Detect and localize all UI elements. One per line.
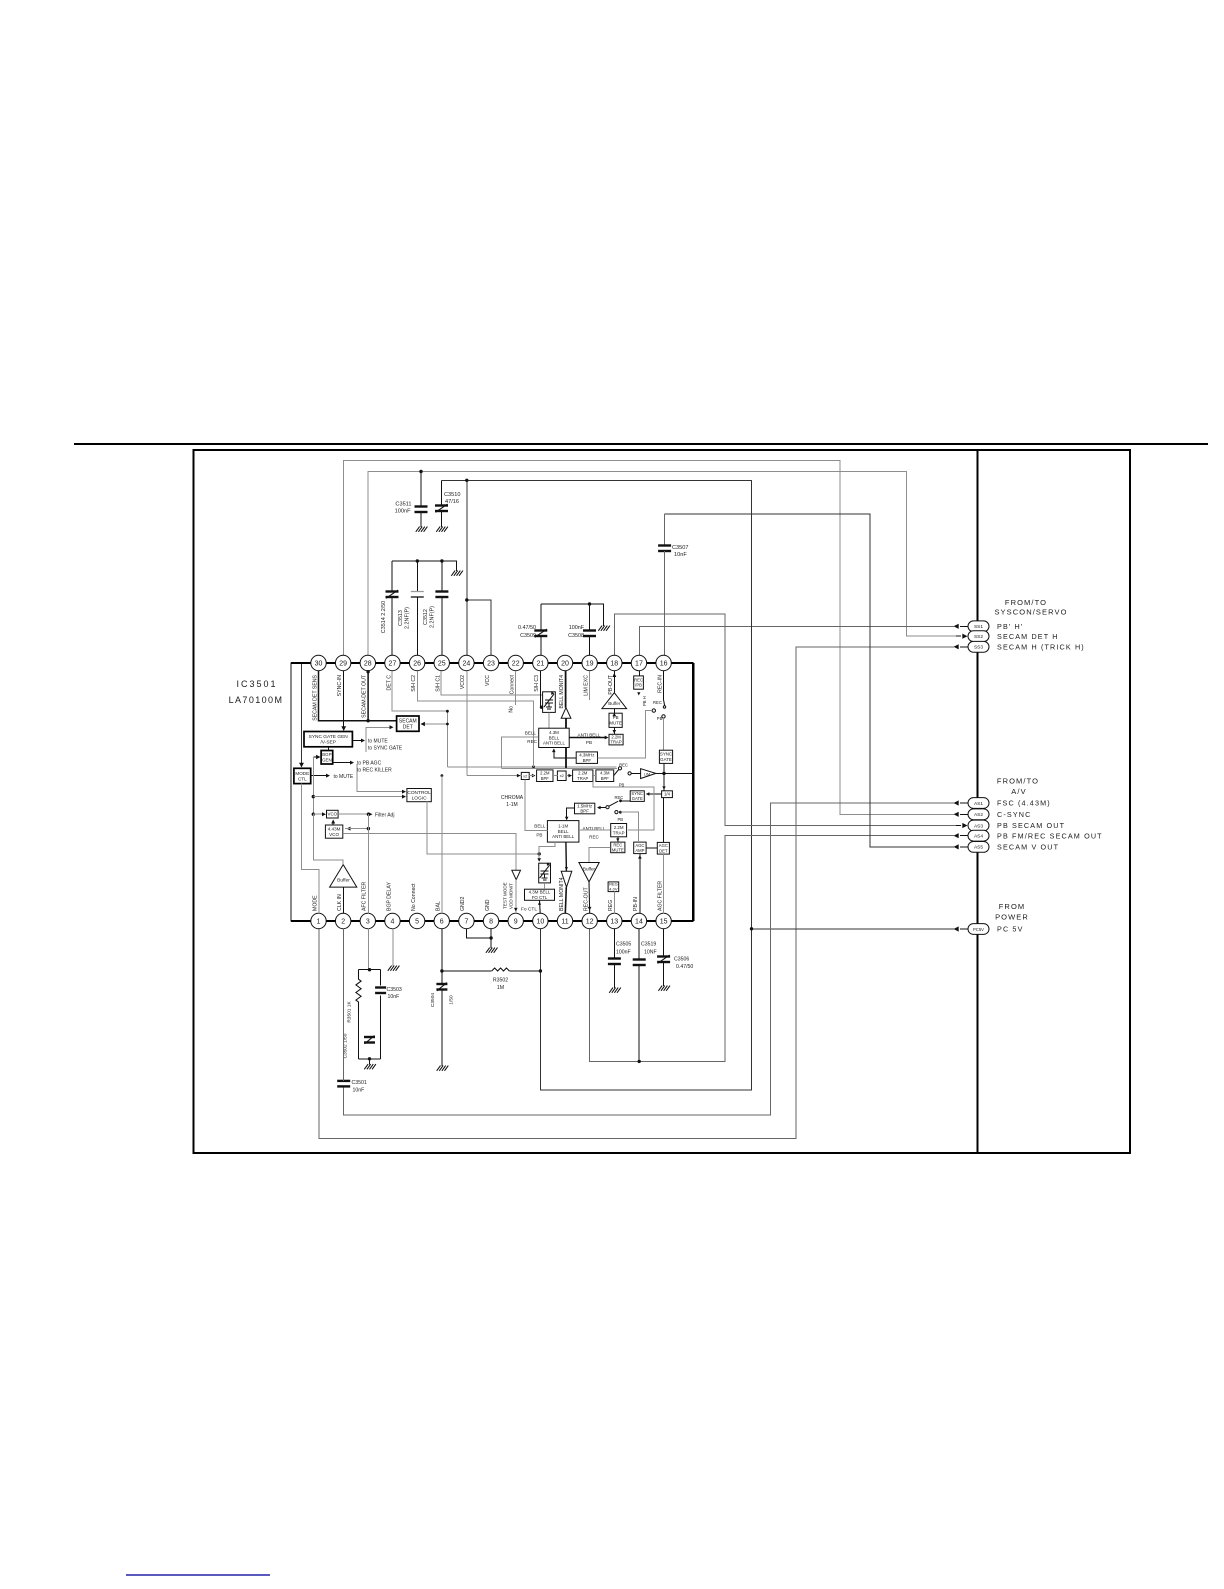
wire row rail xyxy=(467,774,536,778)
svg-text:BELL: BELL xyxy=(558,829,569,834)
pin 20 xyxy=(557,655,572,708)
resistor R3502 1M xyxy=(442,968,541,991)
ground C3508 rail xyxy=(598,626,610,631)
svg-text:CHROMA: CHROMA xyxy=(501,795,524,801)
buffer B3 (REC-OUT) xyxy=(579,863,599,882)
junction network top xyxy=(368,968,371,971)
svg-text:1M: 1M xyxy=(497,985,504,991)
wire 4.43M VCO adj xyxy=(345,827,368,831)
wire mode bus branch xyxy=(312,757,314,815)
svg-text:Fo CTL: Fo CTL xyxy=(521,907,537,913)
block AGC AMP xyxy=(634,842,646,854)
svg-text:LA70100M: LA70100M xyxy=(229,695,284,705)
wire rec rail lower xyxy=(502,767,617,769)
wire pin3 network xyxy=(367,928,369,969)
block REC MUTE xyxy=(611,842,625,853)
wire trimmer to bell filter xyxy=(548,712,550,728)
label ANTI BELL PB xyxy=(578,733,601,746)
svg-text:1/50: 1/50 xyxy=(449,995,455,1005)
svg-text:C3503: C3503 xyxy=(387,987,402,993)
svg-text:Buffer: Buffer xyxy=(337,878,350,884)
block x2 b xyxy=(557,771,566,781)
pin 26 xyxy=(409,655,424,691)
block 4.43M VCO xyxy=(325,825,342,838)
buffer B1 (CLK) xyxy=(330,865,357,888)
svg-text:to MUTE: to MUTE xyxy=(368,739,388,745)
svg-text:30: 30 xyxy=(315,661,323,668)
wire lim out xyxy=(656,772,693,774)
pin 1 xyxy=(311,895,326,929)
connector AS1 (FSC (4.43M)) xyxy=(954,798,1051,809)
svg-text:IC3501: IC3501 xyxy=(236,679,277,689)
buffer B2 (PB-OUT) xyxy=(602,693,627,709)
svg-text:MODE: MODE xyxy=(312,895,318,911)
switch sync gate rec/pb xyxy=(606,795,630,822)
svg-text:47/16: 47/16 xyxy=(445,499,459,505)
header FROM POWER xyxy=(995,902,1029,922)
svg-text:16: 16 xyxy=(660,661,668,668)
svg-text:FROM/TO: FROM/TO xyxy=(997,777,1039,786)
svg-text:SS2: SS2 xyxy=(974,634,983,640)
pin 12 xyxy=(582,887,597,929)
svg-text:1-1M: 1-1M xyxy=(558,824,568,829)
svg-text:S/H C2: S/H C2 xyxy=(411,675,417,692)
connector AS2 (C-SYNC) xyxy=(954,809,1032,820)
header FROM/TO A/V xyxy=(997,777,1039,797)
arrow into MODE CTL xyxy=(299,763,304,768)
svg-text:SYSCON/SERVO: SYSCON/SERVO xyxy=(994,608,1067,617)
svg-text:SECAM-DET OUT: SECAM-DET OUT xyxy=(362,674,368,718)
svg-text:REC: REC xyxy=(527,739,537,744)
svg-text:AS5: AS5 xyxy=(974,845,983,851)
svg-text:ANTI BELL: ANTI BELL xyxy=(543,741,566,746)
wire S/H cap rail xyxy=(392,561,457,571)
svg-text:13: 13 xyxy=(610,919,618,926)
wire bgp to control logic xyxy=(357,764,406,794)
wire bpf left xyxy=(552,749,576,758)
junction R3502 left xyxy=(440,969,443,972)
block 1.5MHz BPF xyxy=(575,803,595,814)
block 4.3M BELL FO CTL xyxy=(525,889,555,900)
svg-text:14: 14 xyxy=(635,919,643,926)
wire pins7/8 ground xyxy=(467,928,492,948)
svg-text:17: 17 xyxy=(635,661,643,668)
svg-text:SECAM H (TRICK H): SECAM H (TRICK H) xyxy=(997,642,1085,651)
wire 1/4 down to AGC DET xyxy=(663,798,665,843)
svg-text:PB FM/REC SECAM OUT: PB FM/REC SECAM OUT xyxy=(997,831,1103,840)
svg-text:Buffer: Buffer xyxy=(583,867,596,872)
svg-text:24: 24 xyxy=(463,661,471,668)
svg-text:20: 20 xyxy=(561,661,569,668)
svg-text:10nF: 10nF xyxy=(674,552,687,558)
pin 9 xyxy=(508,913,523,928)
svg-text:GATE: GATE xyxy=(632,796,643,801)
svg-text:VCO: VCO xyxy=(328,812,338,817)
wire pin3 AFC xyxy=(367,814,369,913)
svg-text:LOGIC: LOGIC xyxy=(412,796,427,802)
svg-text:PB' H': PB' H' xyxy=(997,622,1023,631)
amp LIM xyxy=(641,769,656,779)
svg-text:100nF: 100nF xyxy=(395,509,411,515)
connector PC5V (PC 5V) xyxy=(954,924,1024,935)
wire buffer pbmute xyxy=(613,709,617,717)
wire pin29 into SYNC GATE GEN xyxy=(343,671,345,730)
wire pin2 to C3501 xyxy=(343,928,345,1081)
ground C3506 xyxy=(658,986,670,991)
block VCO xyxy=(327,810,339,818)
block 4.3MHz BPF xyxy=(576,752,597,764)
svg-text:DET: DET xyxy=(659,848,668,853)
pin 14 xyxy=(631,897,646,929)
svg-text:10nF: 10nF xyxy=(388,994,400,1000)
svg-text:15: 15 xyxy=(660,919,668,926)
wire pin2 CLK to AS1 FSC xyxy=(344,803,954,1115)
pin 30 xyxy=(311,655,326,720)
svg-text:BAL: BAL xyxy=(436,901,442,911)
svg-text:C3512: C3512 xyxy=(423,609,429,625)
label PB H xyxy=(637,692,647,706)
svg-text:PB-IN: PB-IN xyxy=(633,897,639,911)
wire pin28 down xyxy=(367,671,369,721)
svg-text:4.3M BELL: 4.3M BELL xyxy=(529,890,551,895)
svg-text:PB-OUT: PB-OUT xyxy=(608,674,614,694)
wire buffer top jog xyxy=(313,814,343,864)
wire det rail xyxy=(447,766,616,768)
svg-text:LIM EXC: LIM EXC xyxy=(583,675,589,696)
svg-text:No Connect: No Connect xyxy=(411,883,417,911)
wire MODE CTL feed xyxy=(301,663,303,766)
wire pin30 to SECAM DET xyxy=(319,671,397,721)
capacitor C3501 10nF xyxy=(337,1080,367,1094)
capacitor C3506 0.47/50 xyxy=(657,928,693,986)
arrow into BGP GEN left xyxy=(313,756,319,758)
svg-text:R3502: R3502 xyxy=(493,978,508,984)
svg-text:TRAP: TRAP xyxy=(577,776,588,781)
wire bpf to rec contact xyxy=(598,711,653,758)
wire 4.43M VCO to test monitor xyxy=(343,834,516,871)
block 1/4 divider xyxy=(662,791,673,798)
svg-text:18: 18 xyxy=(610,661,618,668)
wire buffer3 pin12 xyxy=(588,882,592,913)
svg-text:C3514 2.2/50: C3514 2.2/50 xyxy=(381,601,387,633)
svg-text:VCC: VCC xyxy=(485,675,491,686)
svg-text:VCO2: VCO2 xyxy=(460,675,466,689)
svg-text:22: 22 xyxy=(512,661,520,668)
svg-text:SYNC GATE GEN: SYNC GATE GEN xyxy=(309,734,349,740)
block x2 a xyxy=(521,772,529,779)
wire pin24 VCO2 up to VCC rail xyxy=(466,480,468,655)
wire pin21 to trimmer xyxy=(541,671,543,707)
capacitor C3512 2.2NF(P) xyxy=(423,561,448,656)
svg-text:SECAM DET SENS: SECAM DET SENS xyxy=(312,674,318,720)
wire pin18 buffer xyxy=(612,671,616,693)
svg-text:9: 9 xyxy=(514,919,518,926)
svg-text:11: 11 xyxy=(561,919,568,926)
svg-text:BELL MONIT4: BELL MONIT4 xyxy=(559,877,565,911)
svg-text:BELL: BELL xyxy=(549,735,560,740)
pin 3 xyxy=(360,881,375,928)
label CHROMA 1-1M xyxy=(501,795,524,808)
block 2.2M TRAP (pb) xyxy=(609,734,623,745)
junction pin28/pin30 wire xyxy=(366,719,369,722)
wire trimmer2 foctl xyxy=(544,883,546,889)
svg-text:MUTE: MUTE xyxy=(612,847,624,852)
svg-text:C3508: C3508 xyxy=(568,633,584,639)
wire C3509/C3508 ground rail xyxy=(541,604,604,626)
pin 25 xyxy=(434,655,449,691)
connector AS4 (PB FM/REC SECAM OUT) xyxy=(954,830,1103,841)
svg-text:C3510: C3510 xyxy=(444,492,460,498)
amp BELL MONIT4 (pin11) xyxy=(561,871,572,887)
svg-text:to PB AGC: to PB AGC xyxy=(357,761,382,767)
junction C3511 tap xyxy=(419,470,422,473)
svg-text:6: 6 xyxy=(440,919,444,926)
capacitor C3510 47/16 xyxy=(435,480,460,527)
svg-text:1-1M: 1-1M xyxy=(506,802,517,808)
svg-text:TRAP: TRAP xyxy=(610,740,621,745)
junction trimmer xyxy=(540,706,543,709)
svg-text:LIM: LIM xyxy=(644,773,650,777)
pin 10 xyxy=(533,913,548,928)
svg-text:AS4: AS4 xyxy=(974,834,983,840)
pin 6 xyxy=(434,901,449,929)
wire pin22 stub xyxy=(514,671,516,705)
wire bpf2 switch xyxy=(597,806,606,810)
wire sync gate down xyxy=(662,763,665,790)
svg-text:SECAM DET H: SECAM DET H xyxy=(997,632,1059,641)
wire pin23 VCC jog xyxy=(467,600,491,656)
pin 22 xyxy=(508,655,523,694)
wire pin20 amp xyxy=(565,671,567,769)
wire pin28 SECAM-DET OUT to SS2 xyxy=(368,472,956,656)
junction pin3 filter xyxy=(367,813,370,816)
svg-text:REG: REG xyxy=(608,900,614,911)
svg-text:GATE: GATE xyxy=(660,757,672,762)
junction C3508 top xyxy=(588,602,591,605)
wire agc amp det xyxy=(646,847,657,849)
svg-text:4.0V: 4.0V xyxy=(609,887,618,892)
svg-text:GND: GND xyxy=(485,899,491,911)
wire pin24 interior xyxy=(466,671,468,776)
page rule xyxy=(74,443,1208,445)
wire bell input xyxy=(502,737,539,768)
trimmer fo ctl xyxy=(539,863,551,883)
wire 4.3M bell to trap xyxy=(569,736,608,740)
svg-text:100nF: 100nF xyxy=(616,950,631,956)
svg-text:VDD MONIT: VDD MONIT xyxy=(509,883,514,909)
svg-text:A/V: A/V xyxy=(1011,787,1026,796)
svg-text:PB: PB xyxy=(618,817,624,822)
capacitor C3513 2.2NF(P) xyxy=(398,561,424,656)
pin 21 xyxy=(533,655,548,691)
junction pin14 loop xyxy=(638,1060,641,1063)
junction lim out xyxy=(662,772,665,775)
wire PC5V stub xyxy=(752,928,955,930)
header FROM/TO SYSCON/SERVO xyxy=(994,598,1067,617)
pin 24 xyxy=(459,655,474,689)
junction fo trimmer xyxy=(538,852,541,855)
svg-text:C3506: C3506 xyxy=(674,957,689,963)
svg-text:FROM: FROM xyxy=(999,902,1025,911)
pin 27 xyxy=(385,655,400,690)
IC right edge bold xyxy=(692,663,694,921)
junction det rail xyxy=(532,765,535,768)
svg-text:SS3: SS3 xyxy=(974,645,983,651)
block REG 4.0V xyxy=(608,882,619,892)
label to PB AGC xyxy=(333,761,382,767)
svg-text:7: 7 xyxy=(464,919,468,926)
svg-text:POWER: POWER xyxy=(995,913,1029,922)
junction rail C3512 xyxy=(440,559,443,562)
svg-text:PB: PB xyxy=(536,833,542,838)
schematic border frame xyxy=(194,450,1131,1153)
svg-text:3: 3 xyxy=(366,919,370,926)
svg-text:5: 5 xyxy=(415,919,419,926)
svg-text:/PB: /PB xyxy=(635,683,642,688)
label to MUTE (mode ctl) xyxy=(311,774,354,780)
amp TEST MODE xyxy=(512,870,521,879)
junction rail C3513 xyxy=(416,559,419,562)
svg-text:25: 25 xyxy=(438,661,446,668)
svg-text:SYNC: SYNC xyxy=(660,752,672,757)
capacitor C3519 10NF xyxy=(633,928,657,1061)
footer link line xyxy=(126,1574,270,1576)
svg-text:4: 4 xyxy=(390,919,394,926)
svg-text:ANTI BELL: ANTI BELL xyxy=(552,834,575,839)
ground pin4 xyxy=(388,928,400,970)
label Filter Adj xyxy=(369,812,395,818)
arrow into SECAM DET right xyxy=(421,711,448,767)
svg-text:to MUTE: to MUTE xyxy=(334,774,354,780)
wire network gnd stub xyxy=(369,1059,371,1065)
block SYNC GATE 1 xyxy=(659,750,672,763)
junction gnd pins xyxy=(489,936,492,939)
pin 19 xyxy=(582,655,597,695)
junction bal rail xyxy=(441,774,444,777)
svg-text:4.3MHz: 4.3MHz xyxy=(579,753,594,758)
pin 8 xyxy=(483,899,498,928)
ground C3511 xyxy=(416,527,428,532)
ground pin8 xyxy=(486,948,498,953)
wire row links xyxy=(553,774,596,778)
svg-text:0.47/50: 0.47/50 xyxy=(518,625,536,631)
svg-text:28: 28 xyxy=(364,661,372,668)
svg-text:C3511: C3511 xyxy=(395,502,411,508)
svg-text:Buffer: Buffer xyxy=(608,701,621,706)
svg-text:C3501: C3501 xyxy=(352,1080,367,1086)
svg-text:1.5MHz: 1.5MHz xyxy=(577,803,592,808)
svg-text:PC 5V: PC 5V xyxy=(997,925,1024,934)
wire recmute buffer3 xyxy=(589,847,611,862)
wire VCC rail to PC5V and pin10 xyxy=(442,480,752,1090)
pin 29 xyxy=(335,655,350,696)
pin 13 xyxy=(607,900,622,929)
svg-text:2: 2 xyxy=(341,919,345,926)
switch REC/PB (row out) xyxy=(614,763,641,788)
svg-text:PC5V: PC5V xyxy=(973,927,984,932)
pin 2 xyxy=(335,894,350,929)
wire bpf2 left to bell xyxy=(565,808,575,820)
amp BELL MONIT (pin20) xyxy=(561,708,571,719)
block 1-1M BELL/ANTI BELL xyxy=(547,821,579,843)
svg-text:S/H C3: S/H C3 xyxy=(534,675,540,692)
pin 18 xyxy=(607,655,622,694)
block 2.2M TRAP (pb2) xyxy=(611,824,627,837)
wire reg pin13 xyxy=(613,892,615,914)
wire pbmute trap xyxy=(613,727,617,734)
wire pin18 PB-OUT to AS3 xyxy=(614,614,956,825)
block PB MUTE xyxy=(609,713,622,727)
connector SS2 (SECAM DET H) xyxy=(955,631,1059,642)
svg-text:GEN: GEN xyxy=(322,757,332,762)
wire pin6 bal rail xyxy=(441,776,443,914)
ground C3510 xyxy=(436,527,448,532)
svg-text:10nF: 10nF xyxy=(353,1088,365,1094)
pin 17 xyxy=(631,655,646,670)
svg-text:BGP: BGP xyxy=(322,752,331,757)
svg-text:TEST MODE: TEST MODE xyxy=(503,882,508,909)
junction pin28 stub xyxy=(366,670,369,673)
wire agc det pin15 xyxy=(663,854,665,913)
wire MODE CTL down bus xyxy=(302,784,320,914)
wire SYNC GATE GEN to BGP GEN xyxy=(328,747,330,751)
junction ctl logic branch xyxy=(312,795,315,798)
svg-text:BPF: BPF xyxy=(541,776,550,781)
wire pb bypass to trap xyxy=(593,782,654,830)
svg-text:PB: PB xyxy=(586,740,592,745)
svg-text:REC: REC xyxy=(653,700,662,705)
pin 11 xyxy=(557,877,572,928)
svg-text:1: 1 xyxy=(317,919,321,926)
svg-text:4.43M: 4.43M xyxy=(328,827,341,832)
svg-text:DET: DET xyxy=(403,724,413,730)
block BGP GEN xyxy=(321,751,333,765)
svg-text:GND2: GND2 xyxy=(460,896,466,911)
wire buffer to pin2 xyxy=(343,887,345,913)
pin 15 xyxy=(656,881,671,929)
svg-text:4.3M: 4.3M xyxy=(549,730,559,735)
ground S/H rail xyxy=(451,571,463,576)
block CONTROL LOGIC xyxy=(407,789,431,802)
svg-text:FSC (4.43M): FSC (4.43M) xyxy=(997,799,1051,808)
svg-text:to REC KILLER: to REC KILLER xyxy=(357,767,392,773)
wire mode bus to VCO xyxy=(313,812,326,816)
junction pin24 rail xyxy=(465,479,468,482)
svg-text:AS2: AS2 xyxy=(974,812,983,818)
IC top edge bold xyxy=(291,662,693,664)
junction network bottom xyxy=(368,1057,371,1060)
svg-text:to SYNC GATE: to SYNC GATE xyxy=(368,746,403,752)
block 2.2M TRAP (row) xyxy=(573,770,593,782)
switch REC/PB (rec-in) xyxy=(652,671,666,721)
wire control logic to fo trimmer xyxy=(427,802,539,854)
pin 5 xyxy=(409,883,424,929)
label ANTI BELL REC xyxy=(583,826,606,840)
svg-text:/V-SEP: /V-SEP xyxy=(320,740,335,746)
connector AS3 (PB SECAM OUT) xyxy=(955,820,1065,831)
capacitor C3514 2.2/50 xyxy=(381,561,399,656)
block SECAM DET xyxy=(397,716,419,731)
wire C3507 rail to AS5 SECAM V OUT xyxy=(665,514,954,847)
IC bottom edge bold xyxy=(291,920,693,922)
junction vco branch xyxy=(312,813,315,816)
svg-text:100nF: 100nF xyxy=(569,625,585,631)
connector SS1 (PB' H') xyxy=(954,621,1024,632)
svg-text:MODE: MODE xyxy=(295,771,309,776)
svg-text:27: 27 xyxy=(389,661,397,668)
svg-text:R3501 1K: R3501 1K xyxy=(347,1001,353,1023)
ground R3501 network xyxy=(364,1064,376,1069)
